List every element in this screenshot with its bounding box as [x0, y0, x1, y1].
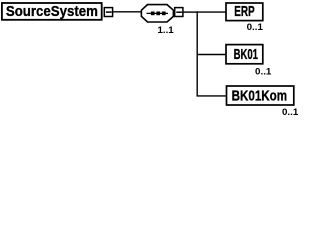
- collapse handle of SourceSystem: [104, 8, 112, 17]
- svg-text:1..1: 1..1: [158, 25, 174, 35]
- collapse handle of sequence: [175, 8, 183, 17]
- wire branch to ERP: [197, 11, 226, 13]
- element SourceSystem: [2, 3, 102, 20]
- element BK01Kom: [227, 86, 294, 105]
- svg-text:SourceSystem: SourceSystem: [6, 4, 98, 20]
- branch trunk vertical: [196, 11, 198, 96]
- element BK01: [226, 45, 263, 64]
- svg-text:BK01Kom: BK01Kom: [232, 89, 288, 105]
- svg-text:0..1: 0..1: [255, 66, 272, 76]
- wire branch to BK01: [197, 54, 226, 56]
- svg-text:BK01: BK01: [234, 47, 258, 63]
- svg-text:ERP: ERP: [234, 4, 255, 20]
- element ERP: [226, 3, 263, 21]
- wire SourceSystem to sequence: [113, 11, 142, 13]
- sequence compositor: [141, 5, 173, 22]
- wire branch to BK01Kom: [197, 95, 227, 97]
- svg-text:0..1: 0..1: [247, 22, 264, 32]
- svg-text:0..1: 0..1: [282, 107, 298, 117]
- wire sequence to branch trunk: [183, 11, 198, 13]
